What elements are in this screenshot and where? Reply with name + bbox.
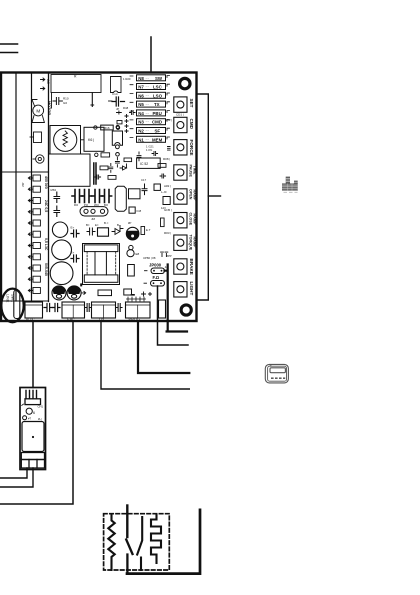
svg-text:TIME: TIME — [193, 166, 197, 175]
svg-text:IC 52: IC 52 — [140, 162, 148, 166]
svg-text:R#3 |: R#3 | — [164, 231, 171, 235]
button LIGHT — [174, 282, 194, 298]
svg-text:24C 0,5: 24C 0,5 — [44, 200, 48, 212]
svg-text:CLOSE: CLOSE — [188, 213, 192, 226]
tiny marks above jumpers — [161, 252, 168, 256]
RX terminal cells — [21, 460, 44, 469]
connector bars CN2 — [94, 163, 96, 184]
RX wire b — [0, 468, 33, 487]
motor wire in — [126, 506, 128, 538]
svg-text:#L|: #L| — [38, 417, 42, 421]
svg-text:R42 |: R42 | — [165, 118, 172, 122]
tiny cross cluster — [142, 292, 152, 296]
svg-text:R48: R48 — [123, 106, 129, 110]
svg-text:N1: N1 — [138, 137, 144, 142]
svg-text:SW: SW — [155, 76, 163, 81]
button OPEN RAMP — [174, 189, 197, 204]
svg-text:RAMP: RAMP — [193, 237, 197, 248]
svg-text:PROG: PROG — [129, 316, 141, 321]
svg-text:R10: R10 — [63, 97, 69, 101]
capacitor C35 — [160, 174, 166, 178]
svg-text:L-J0: L-J0 — [161, 190, 167, 194]
svg-text:···: ··· — [146, 103, 149, 107]
svg-text:JP000: JP000 — [149, 263, 162, 268]
button BRAKE — [174, 259, 194, 275]
capacitor C7 — [92, 190, 103, 203]
svg-text:E+: E+ — [71, 251, 75, 255]
block TR1 — [49, 154, 91, 186]
IC U4 — [129, 207, 135, 213]
wire HV divider vertical 1 — [15, 74, 17, 302]
relay K2 — [98, 228, 109, 236]
bracket grouping buttons — [196, 94, 208, 300]
svg-text:1 KN: 1 KN — [146, 148, 152, 152]
capacitor C10 — [54, 206, 60, 217]
pad P2 — [116, 153, 120, 157]
resistor R28 — [158, 164, 166, 168]
lamp L1 — [36, 155, 44, 163]
connector JM6 3-pole — [80, 207, 108, 221]
svg-text:MEM: MEM — [152, 137, 163, 142]
svg-text:F.Ω: F.Ω — [153, 275, 160, 280]
highlight ellipse — [1, 289, 23, 323]
svg-text:···: ··· — [146, 76, 149, 80]
svg-text:BLOC: BLOC — [26, 317, 35, 321]
button tick labels — [163, 113, 184, 258]
icon transmitter remote — [265, 364, 288, 383]
resistor network RN1 — [127, 297, 146, 301]
terminal block TB0 — [25, 302, 43, 321]
capacitor C32 — [115, 158, 119, 168]
fuse F2 — [112, 131, 122, 145]
svg-text:0#5-040: 0#5-040 — [44, 263, 48, 276]
fuse FS1 circled — [6, 290, 20, 319]
svg-text:#T: #T — [28, 417, 31, 421]
transformer T1 — [80, 244, 119, 287]
button FORCE — [174, 140, 194, 156]
svg-text:12V: 12V — [161, 206, 166, 210]
capacitor C22 electrolytic — [50, 262, 73, 285]
mounting hole top-right — [180, 78, 190, 88]
capacitor C23 — [71, 230, 79, 237]
capacitor C26 — [44, 304, 53, 312]
capacitor C3 — [112, 97, 125, 106]
svg-text:FORCE: FORCE — [189, 140, 194, 156]
diode D3 black top — [52, 286, 66, 300]
svg-text:B=: B= — [86, 223, 90, 227]
connector pin marks — [130, 76, 170, 140]
capacitor C27 — [53, 304, 60, 312]
capacitor C8 — [102, 190, 112, 203]
svg-text:UP80 | #8: UP80 | #8 — [143, 256, 156, 260]
capacitor C24 — [71, 255, 79, 262]
resistor R26 — [141, 227, 145, 235]
capacitor C33 — [109, 164, 113, 173]
svg-text:OPEN: OPEN — [188, 189, 192, 200]
wire HV divider vertical 2 — [31, 74, 33, 302]
RX led — [23, 416, 27, 420]
svg-text:E·T: E·T — [146, 228, 151, 232]
svg-text:CD1 |: CD1 | — [176, 113, 184, 117]
pad P1 — [116, 125, 119, 128]
capacitor C29 — [117, 304, 123, 312]
connector N1 MEM — [137, 136, 166, 142]
capacitor C20 electrolytic — [52, 222, 67, 237]
switch contact S1 — [126, 540, 132, 574]
screw terminals left column — [28, 175, 40, 294]
resistor ladder — [125, 115, 128, 133]
wire stub under relay right — [91, 93, 94, 107]
svg-text:SF: SF — [155, 129, 161, 134]
wire antenna callout top — [150, 37, 152, 72]
switch contact S2 — [137, 517, 142, 570]
button TORQUE RAMP — [174, 235, 197, 251]
wire HV divider vertical 3 — [48, 74, 50, 302]
button CLOSE RAMP — [174, 213, 197, 228]
terminal block TB2 DX — [92, 302, 116, 321]
motor terminal M — [32, 100, 51, 123]
connector N6 LSO — [137, 92, 166, 98]
svg-text:···: ··· — [146, 85, 149, 89]
transistor Q1 — [128, 265, 135, 277]
svg-text:0,5 L3C: 0,5 L3C — [44, 238, 48, 251]
svg-text:A#2 |: A#2 | — [164, 184, 171, 188]
svg-text:N6: N6 — [138, 93, 144, 98]
svg-text:EAC: EAC — [67, 316, 75, 321]
tiny jumper J3 — [168, 147, 171, 151]
resistor R20 — [117, 111, 122, 114]
svg-text:···: ··· — [146, 138, 149, 142]
svg-text:MOTOR: MOTOR — [47, 101, 51, 115]
RX terminal bar — [21, 453, 44, 460]
capacitor C11 — [142, 184, 147, 195]
callout wire 1 — [101, 323, 189, 390]
mounting hole bottom-right — [181, 305, 191, 315]
capacitor C2 — [53, 98, 62, 105]
thermal resistor RT — [108, 515, 114, 570]
resistor R23 — [124, 158, 132, 162]
svg-text:JP: JP — [116, 107, 119, 111]
svg-text:G6: G6 — [63, 101, 67, 105]
wire HV divider horizontal lower — [2, 300, 49, 302]
diode D5 — [112, 226, 123, 235]
connector N5 TX — [137, 101, 166, 107]
svg-text:DX: DX — [99, 316, 105, 321]
terminal block TB1 EAC — [62, 302, 85, 321]
wire stub under relay left — [51, 93, 53, 109]
motor box dashed — [104, 514, 170, 570]
jumper F.O — [144, 275, 165, 286]
capacitor C30 — [109, 100, 113, 102]
wire HV divider horizontal upper — [2, 171, 49, 173]
RX relay — [22, 422, 44, 452]
svg-text:E=: E= — [95, 223, 99, 227]
capacitor C9 — [54, 192, 60, 203]
svg-text:#P: #P — [128, 221, 132, 225]
callout wire 4 from JP000 thick — [165, 265, 188, 332]
svg-text:LINE: LINE — [6, 294, 10, 303]
svg-text:LSC: LSC — [153, 85, 163, 90]
capacitor C4 — [34, 132, 42, 143]
fuse F1 holder — [111, 77, 122, 93]
svg-text:RAMP: RAMP — [193, 190, 197, 201]
receiver module RX1 — [20, 388, 46, 470]
svg-text:-R2: -R2 — [21, 182, 25, 187]
svg-text:SET: SET — [189, 99, 194, 108]
svg-text:N5: N5 — [138, 102, 144, 107]
svg-text:N3: N3 — [138, 120, 144, 125]
svg-text:C17: C17 — [141, 178, 147, 182]
svg-text:B·: B· — [117, 223, 120, 227]
connector N8 SW — [137, 75, 166, 81]
regulator U6 — [163, 197, 170, 205]
connector N2 SF — [137, 128, 166, 134]
receiver drop wire — [32, 323, 34, 388]
svg-text:E8: E8 — [136, 252, 140, 256]
capacitor C5 — [72, 190, 83, 203]
svg-text:···: ··· — [146, 129, 149, 133]
svg-text:JM: JM — [91, 217, 96, 221]
jumper JP000 — [145, 263, 169, 274]
svg-text:BRAKE: BRAKE — [189, 259, 194, 275]
svg-text:N2: N2 — [138, 129, 144, 134]
heater element — [151, 515, 161, 564]
jumper header J2 — [159, 300, 166, 318]
connector N4 PBU — [137, 110, 166, 116]
relay K4 — [124, 289, 134, 295]
resistor R21 — [117, 121, 122, 124]
capacitor C21 electrolytic — [52, 240, 72, 260]
svg-text:PAUSE: PAUSE — [188, 165, 192, 178]
svg-text:···: ··· — [146, 94, 149, 98]
callout wire 2 thick — [138, 323, 189, 374]
svg-text:N4: N4 — [138, 111, 144, 116]
svg-text:M: M — [36, 108, 40, 113]
button CMD — [174, 117, 194, 132]
capacitor C31 — [130, 111, 136, 115]
RX header pins — [22, 391, 41, 406]
svg-text:···: ··· — [146, 120, 149, 124]
svg-text:SW1: SW1 — [11, 294, 15, 302]
inductor L2 toroid — [50, 126, 84, 155]
svg-text:TX: TX — [154, 102, 160, 107]
svg-text:B·=: B·= — [104, 221, 109, 225]
svg-text:CH1: CH1 — [38, 405, 44, 409]
IC U2 — [137, 158, 161, 168]
svg-text:PBU: PBU — [153, 111, 162, 116]
left long wire — [0, 323, 73, 505]
bracket pointer tick — [208, 195, 220, 197]
tiny parts right column — [137, 152, 141, 161]
button PAUSE TIME — [174, 165, 197, 181]
relay K3 — [98, 290, 112, 296]
callout wire 3 from F.O — [158, 286, 189, 345]
svg-text:M63: M63 — [51, 188, 57, 192]
board outline — [1, 73, 197, 322]
wire mains stub N — [0, 52, 18, 54]
resonator Y1 — [115, 186, 126, 211]
svg-text:LSO: LSO — [153, 93, 163, 98]
svg-text:#PP: #PP — [166, 254, 172, 258]
IC U3 — [129, 189, 141, 199]
terminal labels rotated — [44, 176, 48, 276]
svg-text:K6 |: K6 | — [88, 138, 94, 142]
svg-text:IC8: IC8 — [137, 209, 142, 213]
motor return wire thick — [127, 510, 200, 574]
diode D6 half black — [126, 227, 139, 240]
resistor R27 — [161, 218, 165, 227]
svg-text:C14: C14 — [112, 92, 118, 96]
svg-text:N8: N8 — [138, 76, 144, 81]
wire mains stub L — [0, 43, 18, 45]
svg-text:AC: AC — [46, 79, 50, 84]
terminal block TB3 PROG — [126, 302, 151, 321]
svg-text:E+: E+ — [71, 226, 75, 230]
relay R1 top-left — [51, 75, 101, 93]
svg-text:6: 6 — [33, 411, 35, 415]
svg-text:CMD: CMD — [152, 120, 162, 125]
svg-text:R16: R16 — [104, 126, 110, 130]
icon memory blocks — [282, 177, 298, 193]
svg-text:N7: N7 — [138, 85, 144, 90]
svg-text:LIGHT: LIGHT — [189, 282, 194, 296]
button SET — [174, 97, 194, 112]
svg-text:CMD: CMD — [189, 119, 194, 130]
svg-text:1 R20: 1 R20 — [123, 77, 131, 81]
diode D4 black top — [67, 286, 86, 300]
svg-text:400 0#0: 400 0#0 — [44, 176, 48, 189]
resistor R22 — [101, 153, 110, 157]
relay K6 — [84, 127, 104, 151]
diode D7 — [120, 164, 127, 170]
connector N7 LSC — [137, 84, 166, 90]
capacitor C28 — [86, 304, 92, 312]
resistor R25 — [108, 176, 116, 180]
svg-text:TORQUE: TORQUE — [188, 235, 192, 251]
capacitor C25 — [87, 228, 95, 235]
svg-text:···: ··· — [146, 111, 149, 115]
capacitor C6 — [82, 190, 92, 203]
svg-text:RAMP: RAMP — [193, 214, 197, 225]
svg-text:R08 |: R08 | — [163, 157, 170, 161]
regulator U5 — [154, 184, 160, 190]
capacitor C34 — [95, 175, 101, 179]
terminal AC arrows — [41, 78, 50, 90]
LED DL1 — [127, 245, 140, 256]
connector N3 CMD — [137, 119, 166, 125]
resistor R24 — [100, 166, 108, 170]
resistor R16 — [94, 125, 120, 130]
RX trimmer — [26, 408, 35, 415]
RX wire a — [0, 468, 27, 478]
